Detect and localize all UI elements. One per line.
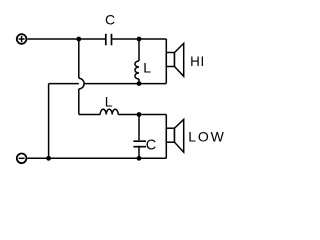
svg-text:C: C — [105, 11, 115, 27]
svg-text:L: L — [105, 94, 113, 110]
svg-text:L: L — [143, 59, 151, 75]
svg-text:HI: HI — [190, 54, 205, 69]
svg-text:LOW: LOW — [188, 129, 226, 145]
svg-text:C: C — [146, 137, 156, 153]
